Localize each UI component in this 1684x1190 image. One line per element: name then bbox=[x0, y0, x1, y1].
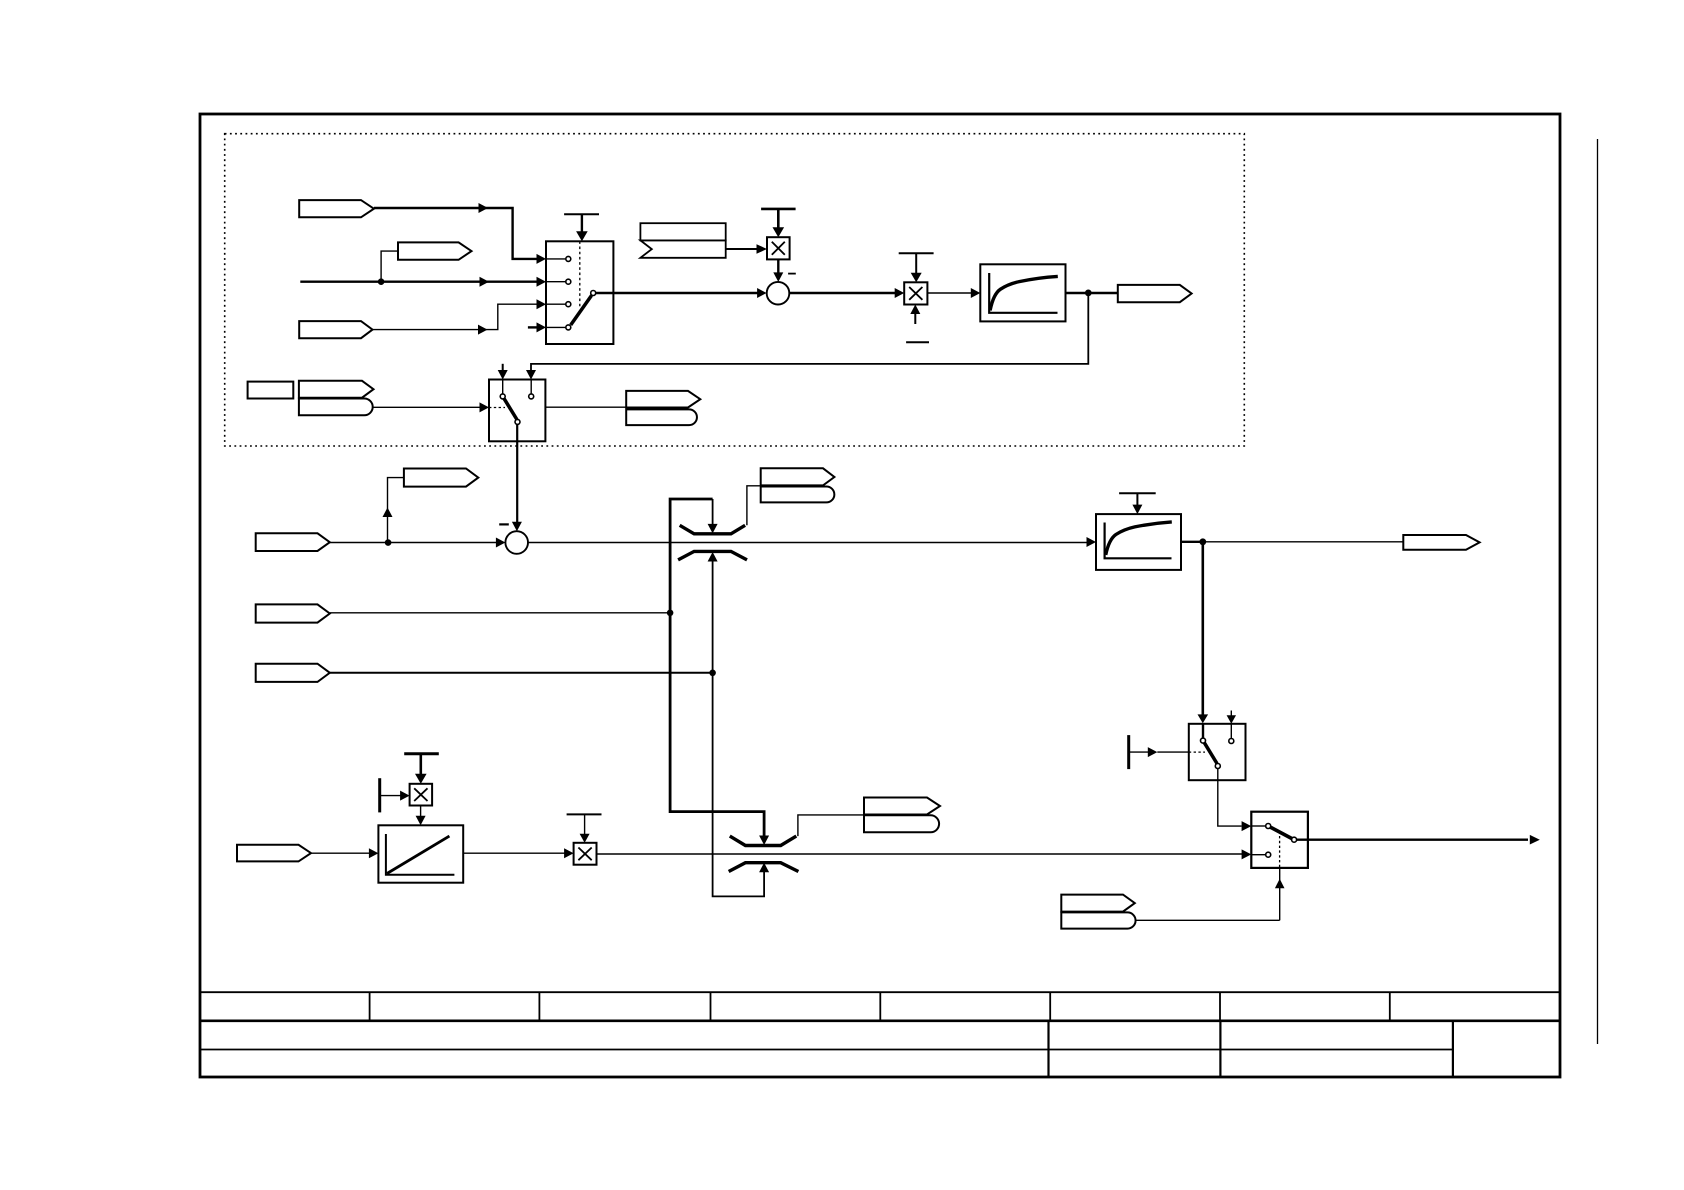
ramp block B2 bbox=[378, 825, 463, 882]
note flag N1 top rectangle bbox=[640, 223, 725, 240]
junction dot C2/line2 bbox=[378, 278, 385, 285]
wire node down to switch S3 bbox=[1202, 542, 1205, 715]
multiplier X3 box bbox=[410, 784, 433, 806]
note flag N1 banner bbox=[640, 240, 725, 257]
switch S4 contact circles bbox=[1266, 824, 1271, 829]
switch S1 input stubs bbox=[546, 259, 565, 328]
limit line V1 upper branch into L1 bbox=[670, 499, 764, 836]
wire C8 to limit line V1 bbox=[330, 612, 670, 614]
stub input 4 of switch S1 bbox=[528, 326, 537, 328]
connector C1 input flag bbox=[299, 200, 374, 217]
title block lower rows column dividers bbox=[1049, 1021, 1453, 1078]
parameter tee above X3 bbox=[404, 752, 439, 755]
PT1 filter block F1 bbox=[980, 264, 1065, 321]
switch S2 dashed input line bbox=[489, 407, 505, 409]
arrow X1 to summing point minus input bbox=[777, 259, 779, 273]
stub arrow above switch S3 right input bbox=[1230, 711, 1232, 717]
title block row line middle bbox=[200, 1019, 1560, 1022]
wire switch S2 output to connector C14 bbox=[545, 406, 626, 408]
switch S4 lever bbox=[1268, 826, 1294, 840]
wire X2 to filter PT1a bbox=[927, 292, 971, 294]
switch S1 output contact circle bbox=[591, 291, 596, 296]
parameter tee above X1 bbox=[761, 208, 796, 211]
connector C6 parameter flag bbox=[404, 469, 478, 487]
switch S1 selector dashed line bbox=[579, 241, 581, 308]
multiplier X4 box bbox=[574, 843, 597, 865]
wire SUM2 through limiter L1 to filter F2 bbox=[528, 542, 1087, 544]
wire below S4 from connector C11 bbox=[1279, 868, 1281, 920]
switch S4 inner stubs bbox=[1251, 825, 1265, 827]
connector C5 input flag bbox=[256, 533, 330, 551]
junction dot V2 with C9 wire bbox=[709, 670, 716, 677]
wire C13 to limiter L2 bbox=[798, 815, 864, 836]
switch S2 lever bbox=[504, 398, 517, 420]
switch S3 lever bbox=[1204, 742, 1217, 763]
connector C11 stadium bbox=[1061, 912, 1135, 928]
connector C7 double flag pentagon bbox=[761, 468, 835, 485]
wire X4 through limiter L2 to switch S4 bbox=[597, 853, 1243, 855]
wire ramp block to multiplier X4 bbox=[463, 852, 564, 854]
parameter tee above F2 bbox=[1119, 492, 1156, 494]
minus sign below X2 bbox=[906, 341, 929, 343]
multiplier X1 box bbox=[767, 237, 790, 259]
connector C3 input flag bbox=[299, 321, 372, 338]
switch S1 input contact circles bbox=[566, 256, 571, 261]
wire C2 elbow to node bbox=[381, 251, 398, 282]
wire C6 elbow down to junction bbox=[388, 478, 404, 543]
connector C14 stadium bbox=[626, 409, 697, 425]
connector C5b stadium bbox=[299, 399, 373, 416]
wire C12 to ramp block bbox=[311, 852, 369, 854]
rectangle label box R1 bbox=[248, 382, 294, 399]
wire F1 to output connector C4 bbox=[1066, 292, 1118, 294]
switch S1 lever bbox=[571, 296, 592, 326]
minus sign at summing point bbox=[788, 273, 796, 275]
node dot after F1 bbox=[1085, 290, 1092, 297]
minus sign at SUM2 bbox=[499, 523, 509, 525]
arrow X3 to ramp block bbox=[420, 806, 422, 817]
junction dot on C5 wire bbox=[385, 539, 392, 546]
limiter L2 lower jaw bbox=[729, 863, 799, 872]
junction dot V1 with C8 wire bbox=[667, 610, 674, 617]
binector bar input of S3 bbox=[1127, 735, 1130, 769]
switch S1 box bbox=[546, 241, 613, 344]
feedback wire node to switch S2 bbox=[531, 293, 1088, 371]
title block row line lower bbox=[200, 1049, 1453, 1051]
wire S3 output to switch S4 bbox=[1218, 769, 1242, 826]
connector C9 input flag bbox=[256, 664, 330, 682]
connector C13 double flag pentagon bbox=[864, 798, 940, 815]
switch S3 inner stubs bbox=[1202, 724, 1204, 738]
switch S3 box bbox=[1189, 724, 1246, 780]
switch S4 dashed selector line bbox=[1279, 836, 1281, 868]
wire F2 to output connector C10 bbox=[1181, 541, 1203, 543]
connector C10 output flag bbox=[1403, 535, 1479, 550]
parameter tee above X2 bbox=[899, 252, 934, 254]
wire N1 to multiplier X1 bbox=[726, 248, 758, 250]
wire C5b to switch S2 bbox=[373, 406, 480, 408]
limit line V2 lower branch bbox=[713, 561, 765, 897]
switch S3 contact circles bbox=[1201, 738, 1206, 743]
switch S2 contact circles bbox=[500, 394, 505, 399]
stub arrow into switch S2 left input bbox=[502, 364, 504, 371]
limiter L2 upper jaw bbox=[730, 836, 797, 845]
wire C9 to limit line V2 bbox=[330, 672, 713, 674]
title block row line top bbox=[200, 991, 1560, 993]
parameter tee above X4 bbox=[567, 813, 602, 815]
title block top row column dividers bbox=[370, 992, 1390, 1021]
PT1 filter block F2 bbox=[1096, 514, 1181, 570]
fold mark line right margin bbox=[1597, 139, 1599, 1044]
limiter L1 upper jaw bbox=[680, 525, 745, 534]
connector C11 double flag pentagon bbox=[1061, 895, 1135, 912]
connector C14 double flag pentagon bbox=[626, 391, 700, 408]
connector C4 output flag bbox=[1118, 285, 1192, 302]
wire C5 to summing point SUM2 bbox=[330, 542, 497, 544]
drawing frame border bbox=[200, 114, 1560, 1077]
summing point SUM1 bbox=[767, 282, 790, 305]
wire SUM1 to multiplier X2 bbox=[789, 292, 895, 294]
summing point SUM2 bbox=[505, 531, 528, 554]
wire C1 to switch S1 input 1 bbox=[374, 208, 537, 259]
switch S2 inner stubs bbox=[502, 380, 504, 394]
switch S2 box bbox=[489, 380, 545, 442]
limiter L1 lower jaw bbox=[678, 551, 747, 560]
wire C7 to limiter L1 bbox=[747, 486, 761, 526]
connector C12 input flag bbox=[237, 845, 311, 862]
connector C2 input flag bbox=[398, 242, 472, 259]
binector bar input of X3 bbox=[378, 778, 381, 812]
connector C7 stadium bbox=[761, 487, 835, 503]
switch S4 box bbox=[1251, 812, 1308, 868]
connector C5b double flag pentagon bbox=[299, 381, 374, 398]
wire switch S2 down to summing point SUM2 bbox=[516, 425, 518, 523]
wire C3 elbow to switch S1 input 3 bbox=[373, 304, 538, 329]
parameter tee above switch S1 bbox=[564, 213, 599, 215]
connector C8 input flag bbox=[256, 604, 330, 622]
dotted function-group box bbox=[225, 134, 1245, 446]
multiplier X2 box bbox=[904, 282, 927, 304]
wire input line 2 to switch S1 bbox=[300, 281, 537, 283]
wire switch S1 output to summing point bbox=[596, 292, 758, 294]
wire S4 output arrow bbox=[1297, 839, 1528, 841]
node dot after F2 bbox=[1199, 538, 1206, 545]
connector C13 stadium bbox=[864, 815, 939, 832]
arrow into X2 bottom bbox=[914, 313, 916, 325]
